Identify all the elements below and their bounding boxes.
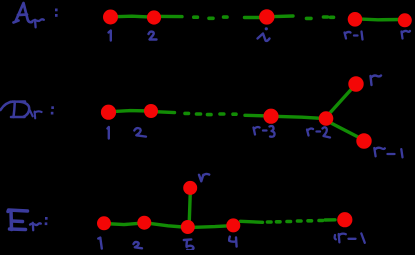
wire E: edge 2-3: [150, 223, 183, 227]
wire A: stub after node 2: [161, 15, 182, 19]
wire D: dotted segment 2..r-3: [185, 113, 236, 114]
wire D: edge r-2 to r (upper branch): [329, 89, 353, 115]
wire E: stub after node 4: [241, 221, 263, 222]
wire E: stub before node r-1: [325, 218, 335, 222]
node 1 (A_r): [103, 10, 118, 25]
label i under A_r node i: [258, 27, 270, 41]
label 1 under A_r node 1: [109, 31, 111, 41]
subscript r of A_r: [32, 19, 44, 27]
colon after A_r: [55, 9, 58, 17]
node r (D_r upper): [348, 76, 363, 91]
node 1 (E_r): [97, 216, 111, 230]
wire D: edge r-2 to r-1 (lower branch): [330, 123, 359, 138]
label 2 under A_r node 2: [149, 32, 157, 40]
wire E: edge 3-4: [195, 226, 230, 228]
wire D: edge 1-2: [109, 111, 152, 112]
label r-3 under D_r node r-3: [254, 126, 275, 137]
label r-1 under E_r node r-1: [335, 233, 365, 242]
label A (series A_r): [14, 3, 33, 23]
wire E: dotted segment 4..r-1: [268, 221, 323, 223]
label r-1 under A_r node r-1: [345, 32, 363, 40]
node i (A_r): [259, 9, 274, 24]
label r-2 under D_r node r-2: [307, 127, 330, 137]
label D (series D_r, script style): [1, 102, 30, 118]
wire A: edge r-1 to r: [355, 19, 402, 20]
node 2 (E_r): [137, 216, 151, 230]
wire A: edge 1-2: [111, 16, 154, 17]
label 3 under E_r node 3: [184, 239, 194, 250]
subscript r of E_r: [30, 223, 41, 230]
label r right of D_r upper node: [371, 76, 382, 86]
node r (A_r): [398, 13, 412, 27]
wire A: dotted segment 2..i: [194, 17, 227, 18]
node r (E_r top): [183, 181, 197, 195]
label r-1 under D_r lower node: [374, 148, 402, 158]
node r-1 (D_r lower): [356, 133, 371, 148]
label 4 under E_r node 4: [229, 237, 236, 247]
wire D: stub after node 2: [158, 110, 175, 114]
wire D: edge r-3 to r-2: [278, 116, 321, 118]
colon after D_r: [51, 106, 54, 114]
wire E: edge 1-2: [104, 223, 144, 225]
wire D: stub before node r-3: [245, 114, 264, 118]
wire A: dotted segment i..r-1: [307, 17, 334, 18]
wire A: stub after node i: [275, 14, 294, 18]
wire E: vertical edge 3 to r: [188, 195, 192, 222]
node 2 (A_r): [147, 10, 161, 24]
node 1 (D_r): [101, 105, 116, 120]
node r-3 (D_r): [263, 109, 278, 124]
node r-2 (D_r): [319, 111, 334, 126]
label 1 under D_r node 1: [108, 127, 109, 139]
node 3 (E_r): [181, 220, 195, 234]
colon after E_r: [45, 217, 48, 225]
label r above E_r top node: [199, 174, 209, 181]
label 2 under D_r node 2: [134, 128, 146, 137]
label E (series E_r): [8, 210, 28, 230]
node r-1 (E_r): [337, 212, 352, 227]
wire A: stub before node i: [245, 16, 260, 19]
label r under A_r node r: [402, 31, 411, 39]
label 1 under E_r node 1: [98, 238, 102, 249]
subscript r of D_r: [30, 111, 42, 119]
node r-1 (A_r): [348, 12, 363, 27]
label 2 under E_r node 2: [134, 242, 143, 248]
node 2 (D_r): [144, 104, 158, 118]
node 4 (E_r): [226, 218, 240, 232]
